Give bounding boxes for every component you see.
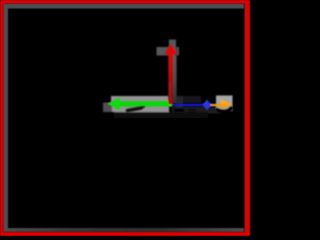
gray bar right of red shaft — [172, 56, 177, 104]
gray wing left of red arrowhead — [157, 47, 171, 56]
red frame left — [0, 0, 3, 236]
dark block right below blue arrowhead — [210, 108, 222, 114]
red frame right — [245, 0, 251, 236]
green arrow head — [107, 97, 120, 110]
red arrow shaft — [168, 52, 172, 105]
label box behind orange arrow — [216, 96, 233, 112]
gray wing right of red arrowhead — [176, 47, 179, 56]
shadow left of green arrowhead — [103, 103, 112, 113]
gray inner frame left — [3, 9, 8, 232]
blue arrow shaft — [173, 104, 207, 106]
orange arrow shaft — [211, 104, 223, 106]
gray inner frame bottom — [3, 228, 244, 232]
dark label box above blue arrow — [172, 96, 201, 103]
red arrow head — [164, 44, 176, 54]
faint residue below labels — [114, 112, 208, 118]
gray inner frame top — [3, 4, 244, 9]
label box behind green arrow — [111, 96, 169, 112]
red frame bottom — [0, 232, 250, 236]
green arrow shaft — [114, 101, 172, 106]
dark gray box behind orange area — [176, 96, 183, 112]
dark text blob in green label — [128, 108, 142, 111]
blue arrow head — [202, 99, 213, 111]
red frame top — [0, 0, 250, 4]
gray bar above red arrowhead — [169, 40, 176, 57]
dark squiggle below orange arrow — [217, 108, 231, 111]
dark text marks in blue label — [174, 109, 184, 113]
dark label box below blue arrow — [172, 107, 210, 114]
orange arrow head — [221, 99, 232, 109]
